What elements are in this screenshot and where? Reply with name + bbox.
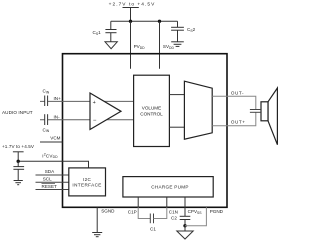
- svg-text:C1P: C1P: [128, 209, 137, 214]
- wire IN-: [40, 119, 134, 121]
- svg-text:PGND: PGND: [210, 209, 224, 214]
- wire OUT-: [212, 96, 256, 109]
- svg-text:IN-: IN-: [54, 115, 61, 120]
- wire VCM stub: [40, 141, 63, 143]
- svg-text:SVDD: SVDD: [163, 44, 175, 50]
- wire PVDD: [130, 21, 132, 68]
- svg-text:PVDD: PVDD: [134, 44, 146, 50]
- svg-text:CPVSS: CPVSS: [188, 209, 203, 215]
- IC block outline: [63, 54, 228, 208]
- junction dot SVDD: [158, 20, 161, 23]
- speaker: [261, 88, 277, 145]
- svg-text:VOLUME: VOLUME: [142, 106, 161, 111]
- wire SCL: [36, 181, 69, 183]
- svg-text:VCM: VCM: [50, 136, 60, 141]
- junction dot CPVSS/PGND: [183, 224, 186, 227]
- ground CS1 (triangle): [105, 42, 117, 49]
- svg-text:+: +: [93, 100, 96, 106]
- svg-text:SDA: SDA: [45, 169, 55, 174]
- svg-text:INTERFACE: INTERFACE: [72, 182, 101, 187]
- wire: top supply rail: [111, 20, 178, 22]
- wire C1P: [138, 197, 150, 219]
- wire: volume control to output stage (bottom): [169, 126, 184, 128]
- svg-text:−: −: [93, 118, 97, 124]
- ground I2CVDD bypass (3-bar): [14, 181, 23, 185]
- output stage driver (trapezoid): [184, 81, 212, 139]
- wire IN+: [40, 100, 134, 102]
- svg-text:+1.7V to +4.5V: +1.7V to +4.5V: [2, 144, 35, 149]
- svg-text:RESET: RESET: [42, 184, 58, 189]
- wire SGND: [96, 207, 98, 232]
- svg-text:OUT-: OUT-: [231, 91, 244, 96]
- wire: volume control to output stage (top): [169, 94, 184, 96]
- supply +1.7V to +4.5V: [13, 152, 24, 162]
- svg-text:+2.7V to +4.5V: +2.7V to +4.5V: [109, 2, 156, 8]
- svg-text:CIN: CIN: [43, 127, 50, 133]
- supply +2.7V to +4.5V: [123, 8, 139, 22]
- svg-text:AUDIO INPUT: AUDIO INPUT: [2, 110, 33, 115]
- wire PGND: [185, 207, 206, 226]
- block CHARGE PUMP: [123, 177, 213, 197]
- wire SDA: [36, 174, 69, 176]
- capacitor output coupling: [250, 110, 261, 113]
- svg-text:C1: C1: [150, 226, 156, 231]
- capacitor C2: [180, 216, 191, 226]
- op-amp U1 input amplifier: [90, 93, 121, 130]
- wire RESET: [36, 189, 69, 191]
- capacitor I2CVDD bypass: [13, 161, 24, 180]
- block I2C INTERFACE: [69, 168, 106, 196]
- ground CS2 (3-bar): [171, 42, 184, 47]
- wire OUT+: [212, 112, 256, 125]
- svg-text:I2C: I2C: [83, 177, 91, 182]
- wire I2CVDD: [18, 161, 88, 168]
- svg-text:CS2: CS2: [187, 27, 196, 33]
- wire CPVSS: [184, 197, 186, 216]
- capacitor C1: [150, 214, 153, 224]
- junction dot I2CVDD: [17, 160, 20, 163]
- svg-text:C1N: C1N: [169, 209, 178, 214]
- capacitor CS2: [171, 21, 184, 42]
- svg-text:CIN: CIN: [43, 89, 50, 95]
- svg-text:SGND: SGND: [101, 208, 115, 213]
- capacitor CIN (IN+): [45, 96, 48, 107]
- svg-text:OUT+: OUT+: [231, 120, 246, 125]
- wire SVDD: [159, 21, 161, 68]
- svg-text:C2: C2: [171, 215, 177, 220]
- wire C1N: [154, 197, 167, 219]
- capacitor CIN (IN-): [45, 114, 48, 125]
- svg-text:CS1: CS1: [93, 30, 102, 36]
- capacitor CS1: [105, 21, 116, 42]
- block VOLUME CONTROL: [134, 75, 170, 146]
- svg-text:CHARGE PUMP: CHARGE PUMP: [151, 185, 189, 190]
- svg-text:SCL: SCL: [43, 177, 52, 182]
- svg-text:IN+: IN+: [54, 96, 62, 101]
- junction dot PVDD: [129, 20, 132, 23]
- svg-text:CONTROL: CONTROL: [140, 111, 163, 116]
- ground charge pump (triangle): [177, 226, 193, 239]
- ground SGND (3-bar): [92, 233, 102, 237]
